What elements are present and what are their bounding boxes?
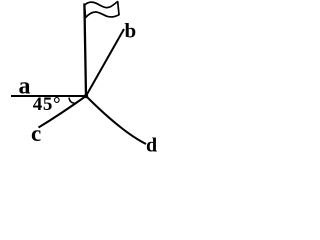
- ray c: [39, 96, 87, 128]
- svg-text:b: b: [125, 19, 137, 43]
- flagpole (vertical ray): [84, 3, 86, 96]
- flag banner: [84, 2, 119, 18]
- svg-text:d: d: [146, 135, 157, 157]
- ray a (horizontal): [11, 95, 86, 97]
- svg-text:c: c: [31, 121, 41, 146]
- ray b: [86, 29, 124, 96]
- vertex node: [84, 94, 88, 98]
- ray d (slightly curved): [86, 96, 146, 144]
- svg-text:45°: 45°: [33, 94, 61, 115]
- 45-degree angle arc: [69, 98, 77, 104]
- svg-text:a: a: [19, 74, 31, 100]
